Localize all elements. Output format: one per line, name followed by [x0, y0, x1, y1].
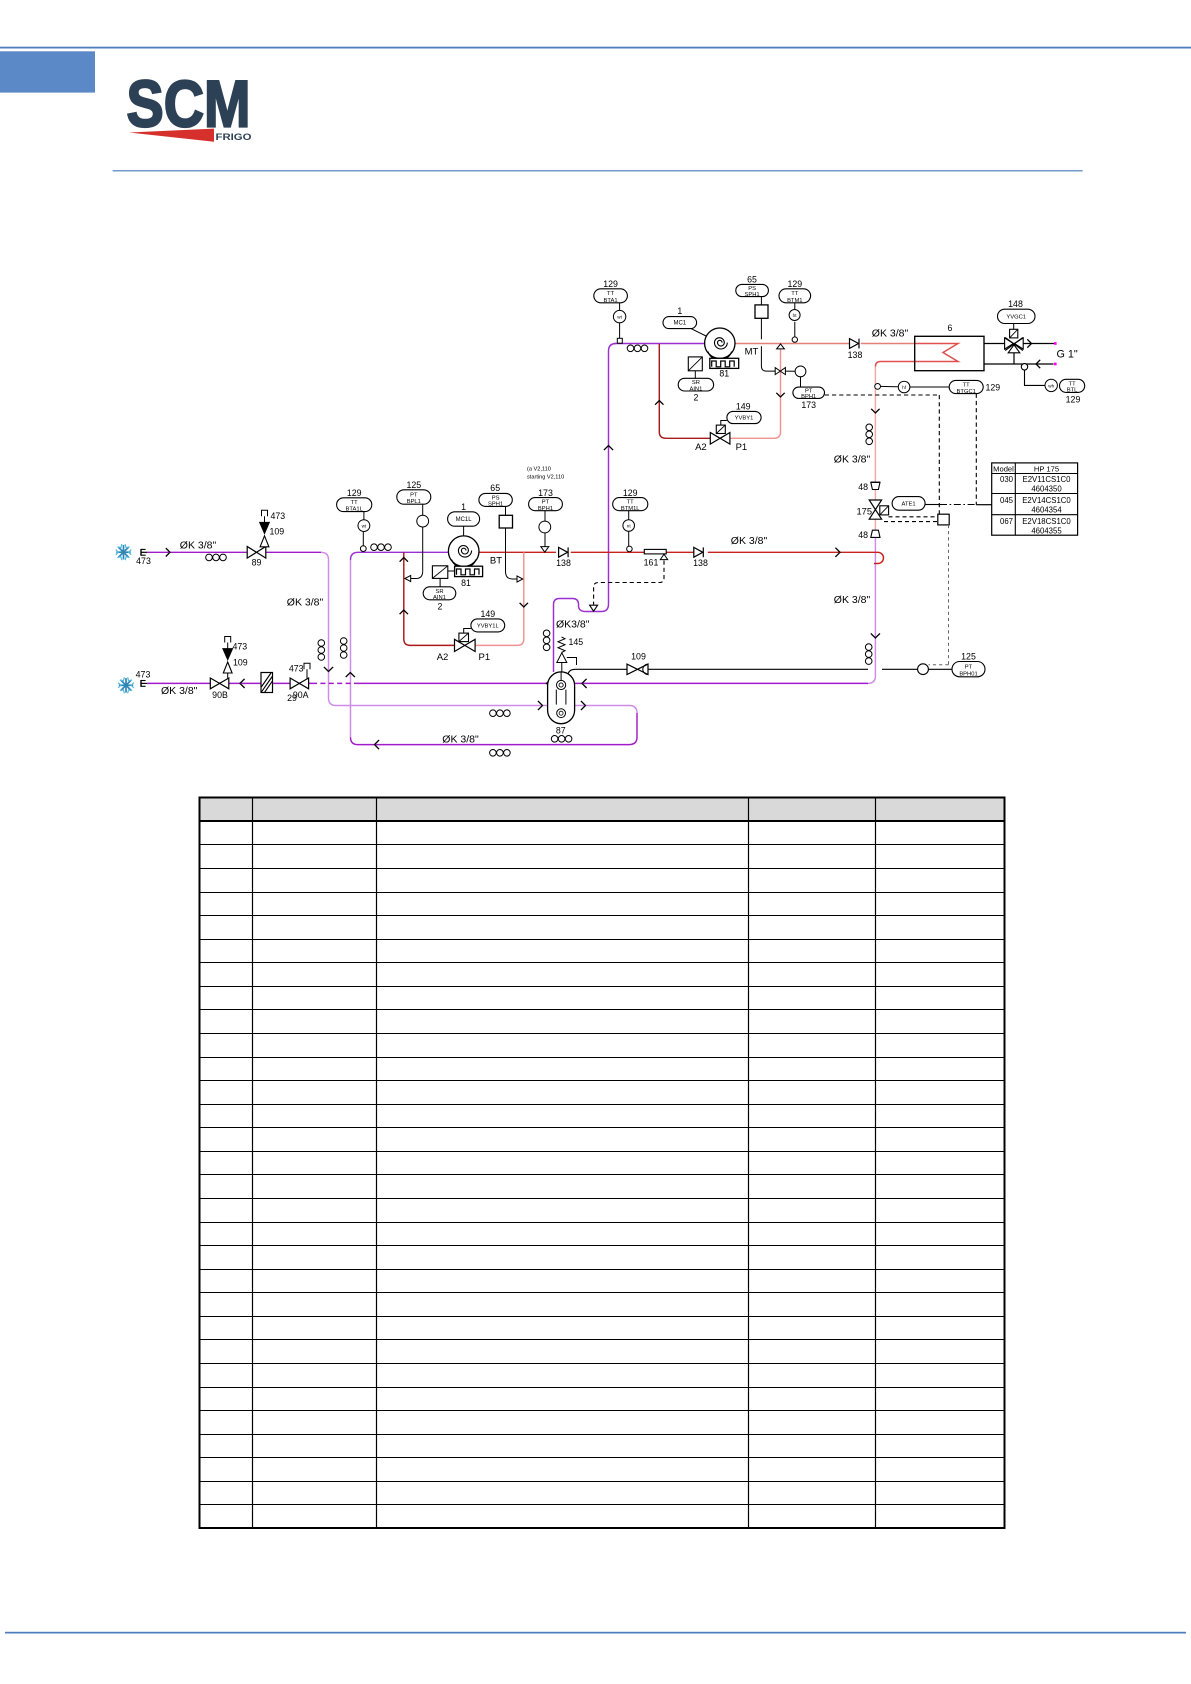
label 161: [644, 558, 659, 568]
junction box: [938, 514, 949, 525]
wire MC1L drop: [463, 526, 465, 536]
label 90A: [293, 690, 309, 700]
svg-text:145: 145: [569, 637, 584, 647]
svg-text:4604354: 4604354: [1031, 506, 1062, 515]
valve A2/P1 BT: [455, 639, 476, 651]
arrow down on x328.5 downcomer: [324, 667, 333, 672]
label 173 BPH1 MT: [801, 400, 816, 410]
tap triangle BPH1 BT: [541, 547, 549, 553]
capsule TT BTM1 MT: [779, 289, 811, 304]
svg-text:A2: A2: [695, 442, 707, 453]
svg-text:G 1": G 1": [1057, 349, 1078, 361]
dashed 175 solenoid to junction box: [884, 517, 938, 522]
svg-text:BTA1: BTA1: [604, 298, 618, 304]
indicator wt BT: [358, 520, 370, 532]
label 473 top-left: [136, 556, 151, 566]
svg-text:ØK 3/8": ØK 3/8": [834, 454, 871, 466]
solenoid A2/P1 MT: [716, 421, 727, 434]
svg-text:E2V11CS1C0: E2V11CS1C0: [1023, 475, 1072, 484]
compressor MT (scroll): [705, 328, 739, 368]
capsule ATE1: [892, 497, 925, 511]
svg-text:BPL1: BPL1: [407, 499, 421, 505]
svg-text:P1: P1: [736, 442, 748, 453]
svg-text:1: 1: [461, 502, 466, 512]
label 29: [287, 693, 297, 703]
svg-text:ØK 3/8": ØK 3/8": [161, 685, 198, 697]
svg-text:TT: TT: [607, 291, 615, 297]
coil on liquid riser lower: [865, 644, 872, 665]
arrow up on MT loop left: [655, 401, 663, 405]
valve A2/P1 MT: [710, 433, 730, 445]
relief 145: [557, 637, 577, 672]
capsule TT BTGC1: [949, 380, 983, 394]
wire BTA1L sensor: [362, 532, 364, 546]
svg-text:2: 2: [694, 393, 699, 403]
label OK 3/8 riser lower: [834, 594, 871, 606]
svg-text:129: 129: [787, 279, 802, 289]
svg-text:4604350: 4604350: [1031, 485, 1062, 494]
capsule PS SPH1 BT: [479, 493, 512, 507]
wire BTM1L drop: [628, 511, 630, 546]
check valve 138 mid: [694, 547, 704, 557]
svg-text:ØK 3/8": ØK 3/8": [834, 594, 871, 606]
label 109 valve: [631, 652, 646, 662]
arrow down on pink riser: [871, 409, 879, 413]
svg-text:ØK 3/8": ØK 3/8": [287, 597, 324, 609]
label 48 upper: [858, 482, 868, 492]
wire BT bypass loop left (dark red): [404, 552, 455, 645]
svg-text:1: 1: [677, 306, 682, 316]
wire evaporator feed top (violet, y552.3): [147, 551, 248, 553]
snowflake bottom-left: [118, 677, 134, 693]
wire MC1 link: [691, 329, 706, 336]
arrow left on bottom loop: [375, 740, 380, 749]
label 109 on relief 89: [270, 527, 285, 537]
wire oil return 109 (black): [568, 669, 952, 677]
svg-text:TT: TT: [963, 383, 971, 389]
svg-text:A2: A2: [437, 652, 449, 663]
valve 109: [627, 664, 648, 674]
capsule TT BTM1L: [613, 498, 648, 512]
svg-text:129: 129: [986, 382, 1001, 392]
svg-text:MT: MT: [745, 347, 759, 358]
svg-text:TT: TT: [791, 291, 799, 297]
wire MT suction riser (violet, x608.5): [554, 344, 617, 673]
svg-text:125: 125: [406, 480, 421, 490]
fitting 48 upper: [871, 482, 880, 489]
svg-text:TT: TT: [1069, 381, 1077, 387]
wire BPH01 node circle: [918, 664, 929, 675]
indicator circle BPH1 BT: [539, 521, 551, 533]
svg-text:473: 473: [289, 663, 304, 673]
arrow left at vessel right: [582, 679, 587, 688]
wire MT discharge (light red): [735, 343, 915, 345]
footer rule: [5, 1632, 1186, 1634]
square PS SPH1 BT: [499, 515, 512, 528]
arrow down on x875.4 liquid riser: [871, 633, 880, 638]
sight glass 161: [644, 549, 667, 559]
tap triangle MT discharge: [777, 344, 785, 349]
svg-text:138: 138: [556, 558, 571, 568]
coil below 87: [551, 736, 572, 743]
arrow up on BT loop left top: [400, 558, 408, 562]
coil on x553.5: [543, 630, 550, 651]
svg-text:BT: BT: [490, 556, 502, 567]
capsule YVGC1: [998, 309, 1036, 323]
label 149 YVBY1L: [480, 609, 495, 619]
fitting 48 lower: [871, 530, 880, 537]
SCM logo red swoosh: [129, 129, 214, 142]
svg-text:109: 109: [233, 658, 248, 668]
svg-text:SPH1: SPH1: [745, 292, 760, 298]
indicator circle BPH1 MT: [795, 366, 806, 377]
arrow up on x350.5 riser: [346, 673, 355, 678]
SCM logo text: [127, 67, 251, 141]
svg-text:PS: PS: [492, 495, 500, 501]
label OK 3/8 MT: [872, 328, 909, 340]
label 81 MT: [719, 369, 729, 379]
svg-text:ØK 3/8": ØK 3/8": [442, 734, 479, 746]
label 2 AIN1 BT: [438, 602, 443, 612]
dashed BPH1-MT to junction: [825, 395, 940, 514]
capsule MC1 MT: [663, 317, 697, 329]
arrow right on red line: [835, 548, 840, 557]
label 125 BPL1: [406, 480, 421, 490]
small valve MT branch: [775, 368, 785, 375]
wire SPH1 MT drop: [760, 297, 762, 340]
valve 89: [247, 547, 266, 559]
wire to hf: [881, 385, 950, 388]
wire mixing valve bottom stub: [1013, 353, 1015, 364]
svg-text:045: 045: [1000, 496, 1014, 505]
node circle BTM1 MT: [792, 337, 797, 342]
label A2 MT: [695, 442, 707, 453]
coil on x328.5: [318, 640, 325, 661]
svg-text:65: 65: [490, 483, 500, 493]
svg-text:PT: PT: [542, 500, 550, 506]
indicator nt BT: [623, 520, 635, 532]
label 1 MC1 MT: [677, 306, 682, 316]
svg-text:90A: 90A: [293, 690, 309, 700]
header blue block: [0, 51, 95, 92]
label 138 mid: [693, 558, 708, 568]
coil on x350.5: [340, 638, 347, 659]
svg-text:MC1L: MC1L: [456, 517, 473, 523]
svg-text:ØK 3/8": ØK 3/8": [872, 328, 909, 340]
label 65 SPH1 BT: [490, 483, 500, 493]
label 129 BTA1L: [347, 488, 362, 498]
label 129 BTGC1: [986, 382, 1001, 392]
svg-text:ØK 3/8": ØK 3/8": [180, 540, 217, 552]
end cap top-left: [141, 549, 147, 556]
arrow down on MT loop right: [776, 393, 784, 397]
label OK 3/8 mid red: [731, 535, 768, 547]
svg-text:PT: PT: [965, 664, 973, 670]
coil y705.5: [490, 710, 511, 717]
svg-text:138: 138: [848, 350, 863, 360]
wire BT discharge (red): [479, 551, 869, 553]
relief valve 473/109 above 89: [260, 510, 270, 547]
label 81 BT: [461, 578, 471, 588]
node circle BTA1L: [360, 546, 366, 552]
wire SPH1 BT drop: [506, 506, 523, 582]
svg-text:030: 030: [1000, 475, 1014, 484]
svg-text:TT: TT: [351, 500, 359, 506]
svg-text:89: 89: [252, 558, 262, 568]
svg-text:SR: SR: [435, 589, 443, 595]
wire BT suction horizontal (violet): [351, 552, 450, 560]
svg-text:067: 067: [1000, 517, 1013, 526]
svg-text:161: 161: [644, 558, 659, 568]
arrow left at vessel left: [547, 679, 552, 688]
wire MT bypass loop left (dark red): [659, 344, 710, 438]
label 87: [556, 726, 566, 736]
svg-text:148: 148: [1008, 299, 1023, 309]
solenoid A2/P1 BT: [459, 629, 471, 642]
label OK 3/8 top-left: [180, 540, 217, 552]
capsule MC1L: [448, 512, 480, 526]
svg-text:(a V2,110: (a V2,110: [527, 467, 551, 473]
text version note: [527, 467, 564, 481]
wire MT bypass loop right (light red): [730, 349, 781, 438]
label 473 on relief 89: [271, 511, 286, 521]
indicator ht MT: [789, 310, 800, 321]
capsule YVBY1 MT: [727, 411, 761, 423]
svg-text:wt: wt: [362, 524, 367, 529]
capsule PT BPH1 MT: [793, 387, 825, 400]
svg-text:48: 48: [858, 482, 868, 492]
square SR AIN1 BT: [432, 566, 454, 587]
svg-text:149: 149: [480, 609, 495, 619]
svg-text:YVBY1: YVBY1: [735, 416, 754, 422]
header top rule: [0, 47, 1191, 49]
indicator hf: [898, 381, 910, 393]
label 173 BPH1 BT: [538, 488, 553, 498]
capsule SR AIN1 MT: [678, 378, 713, 392]
dashed junction box to BPH01 (gray): [929, 525, 949, 665]
separator 87: [548, 672, 575, 724]
capsule TT BTA1 MT: [594, 289, 628, 304]
svg-text:175: 175: [856, 507, 872, 517]
wire gascooler zigzag (red): [875, 344, 958, 367]
indicator wh BTL: [1045, 379, 1057, 391]
svg-text:129: 129: [1066, 395, 1081, 405]
svg-text:ØK3/8": ØK3/8": [556, 619, 590, 631]
wire BTA1 MT sensor: [619, 323, 621, 339]
node circle liquid riser: [875, 384, 881, 390]
label OK 3/8 bottom-left: [161, 685, 198, 697]
wire MT suction horizontal to compressor: [614, 343, 705, 345]
valve 90B: [210, 678, 229, 689]
wire wt MT to capsule: [619, 303, 621, 311]
label 149 YVBY1 MT: [736, 401, 751, 411]
label 138 MT: [848, 350, 863, 360]
svg-text:PT: PT: [410, 492, 418, 498]
svg-text:125: 125: [961, 652, 976, 662]
indicator wt MT: [613, 310, 625, 322]
svg-text:4604355: 4604355: [1031, 526, 1062, 535]
wire BPH1 BT drop: [544, 511, 546, 547]
label 109 on relief 90B: [233, 658, 248, 668]
label MT: [745, 347, 759, 358]
svg-text:48: 48: [858, 530, 868, 540]
coil on liquid riser upper: [866, 424, 873, 445]
label G 1: [1057, 349, 1078, 361]
arrow left G-return: [1036, 360, 1040, 368]
wire G-out after mixing valve: [1023, 343, 1055, 345]
wire bottom return loop (dark violet, y744.6): [351, 713, 638, 745]
mixing valve YVGC1: [1005, 338, 1024, 353]
svg-text:BTA1L: BTA1L: [346, 507, 364, 513]
arrow right on y705.5 line left of vessel: [538, 701, 543, 710]
label 473 on relief 90B: [233, 641, 248, 651]
wire wt to capsule: [363, 512, 365, 520]
arrow up on MT riser: [604, 446, 613, 451]
check valve 138 MT: [850, 339, 860, 349]
svg-text:ØK 3/8": ØK 3/8": [731, 535, 768, 547]
label 90B: [212, 690, 228, 700]
svg-text:473: 473: [136, 556, 151, 566]
label 2 AIN1 MT: [694, 393, 699, 403]
label BT: [490, 556, 502, 567]
wire liquid line y683.4 (dark violet): [147, 537, 875, 683]
svg-text:81: 81: [461, 578, 471, 588]
svg-text:129: 129: [623, 488, 638, 498]
svg-text:P1: P1: [478, 652, 490, 663]
capsule PT BPL1: [397, 490, 431, 505]
valve 90A: [290, 678, 309, 689]
filter drier 29: [261, 673, 273, 693]
arrow down on BT loop right: [520, 603, 528, 607]
wire BPL1 drop: [405, 504, 423, 581]
label OK 3/8 bottom loop: [442, 734, 479, 746]
svg-text:AIN1: AIN1: [433, 595, 446, 601]
solenoid YVGC1: [1010, 324, 1018, 338]
svg-text:473: 473: [136, 670, 151, 680]
label A2 BT: [437, 652, 449, 663]
header underline: [113, 170, 1083, 171]
SCM logo FRIGO: [216, 132, 252, 142]
solenoid 175: [880, 506, 889, 515]
model selection table: [992, 463, 1078, 535]
svg-text:Model: Model: [993, 464, 1014, 473]
svg-text:173: 173: [538, 488, 553, 498]
label 129 BTA1 MT: [603, 279, 618, 289]
wire BTL sensor branch: [1025, 370, 1045, 386]
svg-text:HP 175: HP 175: [1034, 464, 1059, 473]
node circle BTM1L: [627, 546, 633, 552]
relief valve 473/109 above 90B: [223, 637, 233, 679]
label 1 MC1L: [461, 502, 466, 512]
compressor BT (scroll): [448, 536, 482, 577]
svg-text:87: 87: [556, 726, 566, 736]
svg-text:SCM: SCM: [127, 67, 251, 141]
svg-text:2: 2: [438, 602, 443, 612]
svg-text:SPH1: SPH1: [488, 502, 503, 508]
svg-text:109: 109: [270, 527, 285, 537]
wire from valve89 east: [266, 551, 322, 553]
coil y744.6: [490, 750, 511, 757]
node square BTA1 MT: [617, 338, 622, 343]
svg-text:BTM1L: BTM1L: [621, 506, 640, 512]
capsule TT BTA1L: [337, 498, 372, 513]
label 129 BTL: [1066, 395, 1081, 405]
svg-text:6: 6: [948, 323, 953, 333]
svg-text:90B: 90B: [212, 690, 228, 700]
svg-text:149: 149: [736, 401, 751, 411]
capsule PT BPH1 BT: [529, 498, 563, 512]
arrow right after cap: [166, 548, 170, 556]
svg-text:wh: wh: [1048, 383, 1054, 388]
svg-text:129: 129: [603, 279, 618, 289]
label OK 3/8 downcomer: [287, 597, 324, 609]
coil BT suction: [371, 544, 392, 551]
label 138 BT: [556, 558, 571, 568]
wire G-return bottom: [984, 363, 1054, 365]
node dot G-out (magenta): [1054, 342, 1057, 345]
label 125 BPH01: [961, 652, 976, 662]
wire downcomer to SLHX (light violet): [321, 552, 637, 713]
svg-text:YVGC1: YVGC1: [1006, 314, 1026, 320]
capsule TT BTL: [1060, 379, 1085, 393]
dashed oil line Ø6: [590, 561, 664, 612]
gascooler 6: [915, 336, 984, 370]
label 48 lower: [858, 530, 868, 540]
indicator circle BPL1: [417, 515, 429, 527]
wire gascooler to mixing valve (black): [984, 343, 1005, 345]
parts list table (empty): [200, 798, 1005, 1529]
svg-text:SR: SR: [692, 380, 700, 386]
label 148: [1008, 299, 1023, 309]
capsule PT BPH01: [952, 662, 985, 678]
label OK3/8 sep: [556, 619, 590, 631]
crossover hook red to liquid riser: [869, 552, 884, 563]
wire MT BPH1 branch: [761, 346, 800, 387]
svg-text:109: 109: [631, 652, 646, 662]
wire liquid drop to 48 fitting (pink): [874, 367, 876, 531]
svg-text:129: 129: [347, 488, 362, 498]
label P1 BT: [478, 652, 490, 663]
expansion valve 175: [869, 500, 881, 519]
label 129 BTM1 MT: [787, 279, 802, 289]
svg-text:E2V18CS1C0: E2V18CS1C0: [1022, 517, 1071, 526]
label P1 MT: [736, 442, 748, 453]
svg-text:FRIGO: FRIGO: [216, 132, 252, 142]
square SR AIN1 MT: [688, 357, 702, 378]
arrow up on BT loop left: [400, 610, 408, 614]
svg-text:173: 173: [801, 400, 816, 410]
svg-text:BTGC1: BTGC1: [957, 389, 976, 395]
dashed BTGC1 down: [975, 394, 977, 505]
svg-text:ATE1: ATE1: [902, 501, 916, 507]
end cap bottom-left: [141, 680, 147, 687]
label 175: [856, 507, 872, 517]
svg-text:473: 473: [233, 641, 248, 651]
node dot G-return (magenta): [1054, 363, 1057, 366]
check valve 138 BT: [559, 547, 569, 557]
label 473 bottom-left: [136, 670, 151, 680]
square PS SPH1 MT: [755, 305, 768, 318]
svg-text:wt: wt: [617, 315, 622, 320]
label OK 3/8 riser upper: [834, 454, 871, 466]
coil top-left line: [206, 554, 227, 561]
wire SLHX riser to BT suction (light violet, x350.5): [350, 560, 352, 737]
svg-text:BTL: BTL: [1067, 388, 1078, 394]
arrow left into 90B on y683.4: [240, 679, 245, 688]
label 6: [948, 323, 953, 333]
service flag 473 above 90A: [289, 663, 310, 678]
wire BTM1 MT drop: [794, 303, 796, 337]
